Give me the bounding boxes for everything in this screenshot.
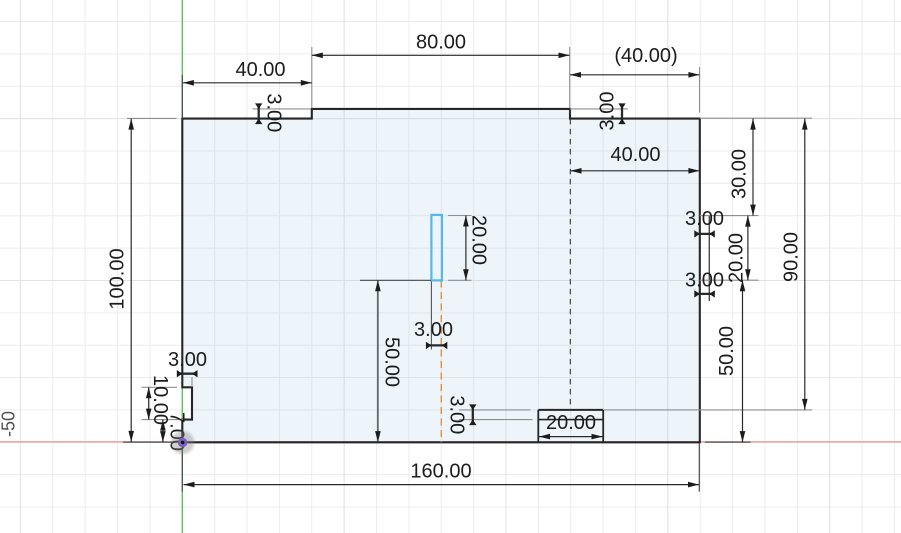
extension lines — [311, 47, 313, 108]
svg-text:20.00: 20.00 — [546, 412, 596, 434]
svg-text:3.00: 3.00 — [446, 395, 468, 434]
svg-text:3.00: 3.00 — [685, 269, 724, 291]
dimension 80.00 — [312, 32, 570, 59]
dimension 3.00 top-left tab — [255, 103, 262, 124]
dimension (40.00) — [570, 45, 699, 77]
dimension 3.00 left notch width — [177, 370, 198, 377]
svg-text:20.00: 20.00 — [468, 215, 490, 265]
dimension 20.00 — [539, 412, 603, 439]
svg-text:3.00: 3.00 — [597, 92, 619, 131]
dimension 90.00 — [781, 119, 808, 410]
dimension 10.00 — [146, 375, 171, 425]
dimension 20.00 — [463, 215, 489, 280]
svg-text:3.00: 3.00 — [685, 208, 724, 230]
dimension 160.00 — [184, 461, 700, 488]
dimension 3.00 center slot width — [426, 342, 447, 349]
slot extension line — [430, 281, 432, 350]
svg-text:-50: -50 — [0, 411, 19, 437]
dimension 40.00 — [183, 59, 312, 86]
svg-text:80.00: 80.00 — [416, 32, 466, 54]
Y axis (green) — [181, 0, 183, 533]
svg-text:160.00: 160.00 — [410, 461, 471, 483]
svg-text:3.00: 3.00 — [414, 319, 453, 341]
dashed construction line x=120u — [569, 109, 571, 410]
dimension 40.00 — [571, 144, 700, 174]
dimension 3.00 bottom slot height — [469, 404, 476, 425]
svg-text:3.00: 3.00 — [168, 349, 207, 371]
dimension 3.00 right notch upper — [694, 230, 715, 237]
svg-text:3.00: 3.00 — [263, 93, 285, 132]
dimension 50.00 — [375, 280, 402, 442]
dimension 20.00 — [726, 216, 751, 283]
dimension 3.00 right notch lower — [694, 290, 715, 297]
right tab edge line — [708, 216, 710, 301]
X axis (red) — [0, 441, 901, 443]
svg-text:(40.00): (40.00) — [614, 45, 677, 67]
dimension 30.00 — [729, 119, 756, 216]
svg-text:20.00: 20.00 — [726, 233, 748, 283]
svg-text:50.00: 50.00 — [716, 326, 738, 376]
selected slot rectangle (cyan) — [431, 215, 442, 281]
profile region fill — [182, 109, 700, 442]
dimension 100.00 — [107, 119, 135, 442]
svg-text:90.00: 90.00 — [781, 232, 803, 282]
bottom slot lines — [538, 409, 603, 411]
svg-text:40.00: 40.00 — [235, 59, 285, 81]
svg-text:30.00: 30.00 — [729, 149, 751, 199]
svg-text:50.00: 50.00 — [381, 337, 403, 387]
dimension 7.00 — [160, 412, 187, 451]
profile outline edges — [182, 109, 700, 442]
orange construction line — [440, 281, 442, 443]
dimension 3.00 top-right tab — [618, 103, 625, 124]
svg-text:100.00: 100.00 — [107, 248, 129, 309]
svg-text:40.00: 40.00 — [610, 144, 660, 166]
dimension 50.00 — [716, 280, 745, 442]
